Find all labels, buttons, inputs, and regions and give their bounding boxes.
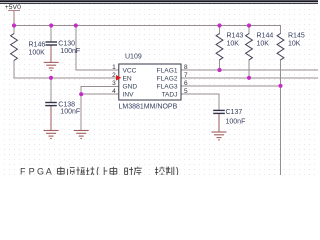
wire +5V0 rail [14,25,281,27]
wire TADJ vertical to C137 [218,94,220,110]
svg-text:P: P [29,166,35,175]
svg-text:C137: C137 [226,109,243,116]
resistor R143 [216,33,243,60]
resistor R144 [246,33,274,60]
svg-text:FLAG2: FLAG2 [157,75,178,82]
wire R144 top stub [248,26,250,34]
svg-text:C130: C130 [58,41,75,48]
svg-text:R143: R143 [227,33,244,40]
svg-text:VCC: VCC [123,67,137,74]
op-amp U109 body (LM3881 sequencer IC) [119,53,182,110]
svg-text:R145: R145 [288,33,305,40]
ground (C137) [212,132,227,140]
wire C130 to ground [50,45,52,62]
svg-text:100K: 100K [29,49,46,56]
capacitor C130 [46,41,81,55]
wire R146 bottom stub [13,61,15,78]
wire R144 bottom stub [248,60,250,78]
top window border bar [0,0,318,4]
wire GND pin3 row [81,85,119,87]
svg-text:5: 5 [184,88,188,95]
svg-text:10K: 10K [257,40,270,47]
wire R143 bottom stub [219,60,221,70]
wire R146 top stub [13,26,15,34]
svg-text:100nF: 100nF [60,48,80,55]
pin numbers [112,64,188,95]
wire C130 stub [50,26,52,43]
wire TADJ row [181,93,219,95]
svg-text:FLAG1: FLAG1 [157,67,178,74]
wire R143 top stub [219,26,221,34]
resistor R146 [11,34,46,61]
svg-text:+5V0: +5V0 [5,4,21,11]
svg-text:G: G [37,166,44,175]
ground (C130) [44,62,59,70]
svg-text:EN: EN [123,75,132,82]
ground (GND/INV pins) [74,131,89,139]
pin names [123,67,178,98]
node rail/C130 [49,23,53,27]
node rail/R146/+5V0 [12,23,16,27]
svg-text:F: F [20,166,26,175]
EN input red arrow [116,75,121,81]
svg-text:A: A [46,166,52,175]
svg-text:LM3881MM/NOPB: LM3881MM/NOPB [119,104,178,111]
wire C137 to ground [218,113,220,132]
svg-text:INV: INV [123,91,135,98]
svg-text:100nF: 100nF [60,109,80,116]
caption CJK glyph strokes (clipped) [57,167,177,177]
node rail/VCC stub [74,23,78,27]
svg-text:R146: R146 [29,42,46,49]
node FLAG2/R144 [247,76,251,80]
node rail/R144 [247,23,251,27]
power symbol +5V0 [9,11,20,26]
wire C138 to ground [50,106,52,131]
wire R145 bottom / FLAG3 net down off-page [280,60,282,175]
svg-text:6: 6 [184,80,188,87]
capacitor C137 [213,109,245,125]
wire INV pin4 row [81,93,119,95]
capacitor C138 [45,101,80,115]
svg-text:8: 8 [184,64,188,71]
wire FLAG2 row [181,77,318,79]
ground (C138) [44,131,59,139]
node FLAG1/R143 [217,68,221,72]
svg-text:2: 2 [112,72,116,79]
caption: FPGA power sequencing title (clipped at bottom) [20,166,52,176]
wire FLAG1 row [181,69,318,71]
wire VCC pin1 row [76,69,119,71]
wire C138 stub [50,78,52,103]
resistor R145 [277,33,305,60]
svg-text:4: 4 [112,88,116,95]
wire GND/INV vertical to ground [80,86,82,130]
svg-text:1: 1 [112,64,116,71]
node EN/C138 [49,76,53,80]
svg-text:100nF: 100nF [226,119,246,126]
svg-text:GND: GND [123,83,138,90]
wire FLAG3 row [181,85,281,87]
wire VCC pin1 vertical [75,26,77,71]
svg-text:TADJ: TADJ [162,91,178,98]
svg-text:10K: 10K [227,40,240,47]
node FLAG3/R145 [278,84,282,88]
svg-text:3: 3 [112,80,116,87]
node rail/R143 [217,23,221,27]
wire EN row [14,77,119,79]
node INV join [79,92,83,96]
svg-text:FLAG3: FLAG3 [157,83,178,90]
svg-text:U109: U109 [125,53,142,60]
svg-text:7: 7 [184,72,188,79]
svg-text:R144: R144 [257,33,274,40]
svg-text:10K: 10K [288,40,301,47]
wire R145 top stub [280,26,282,34]
svg-text:C138: C138 [58,101,75,108]
